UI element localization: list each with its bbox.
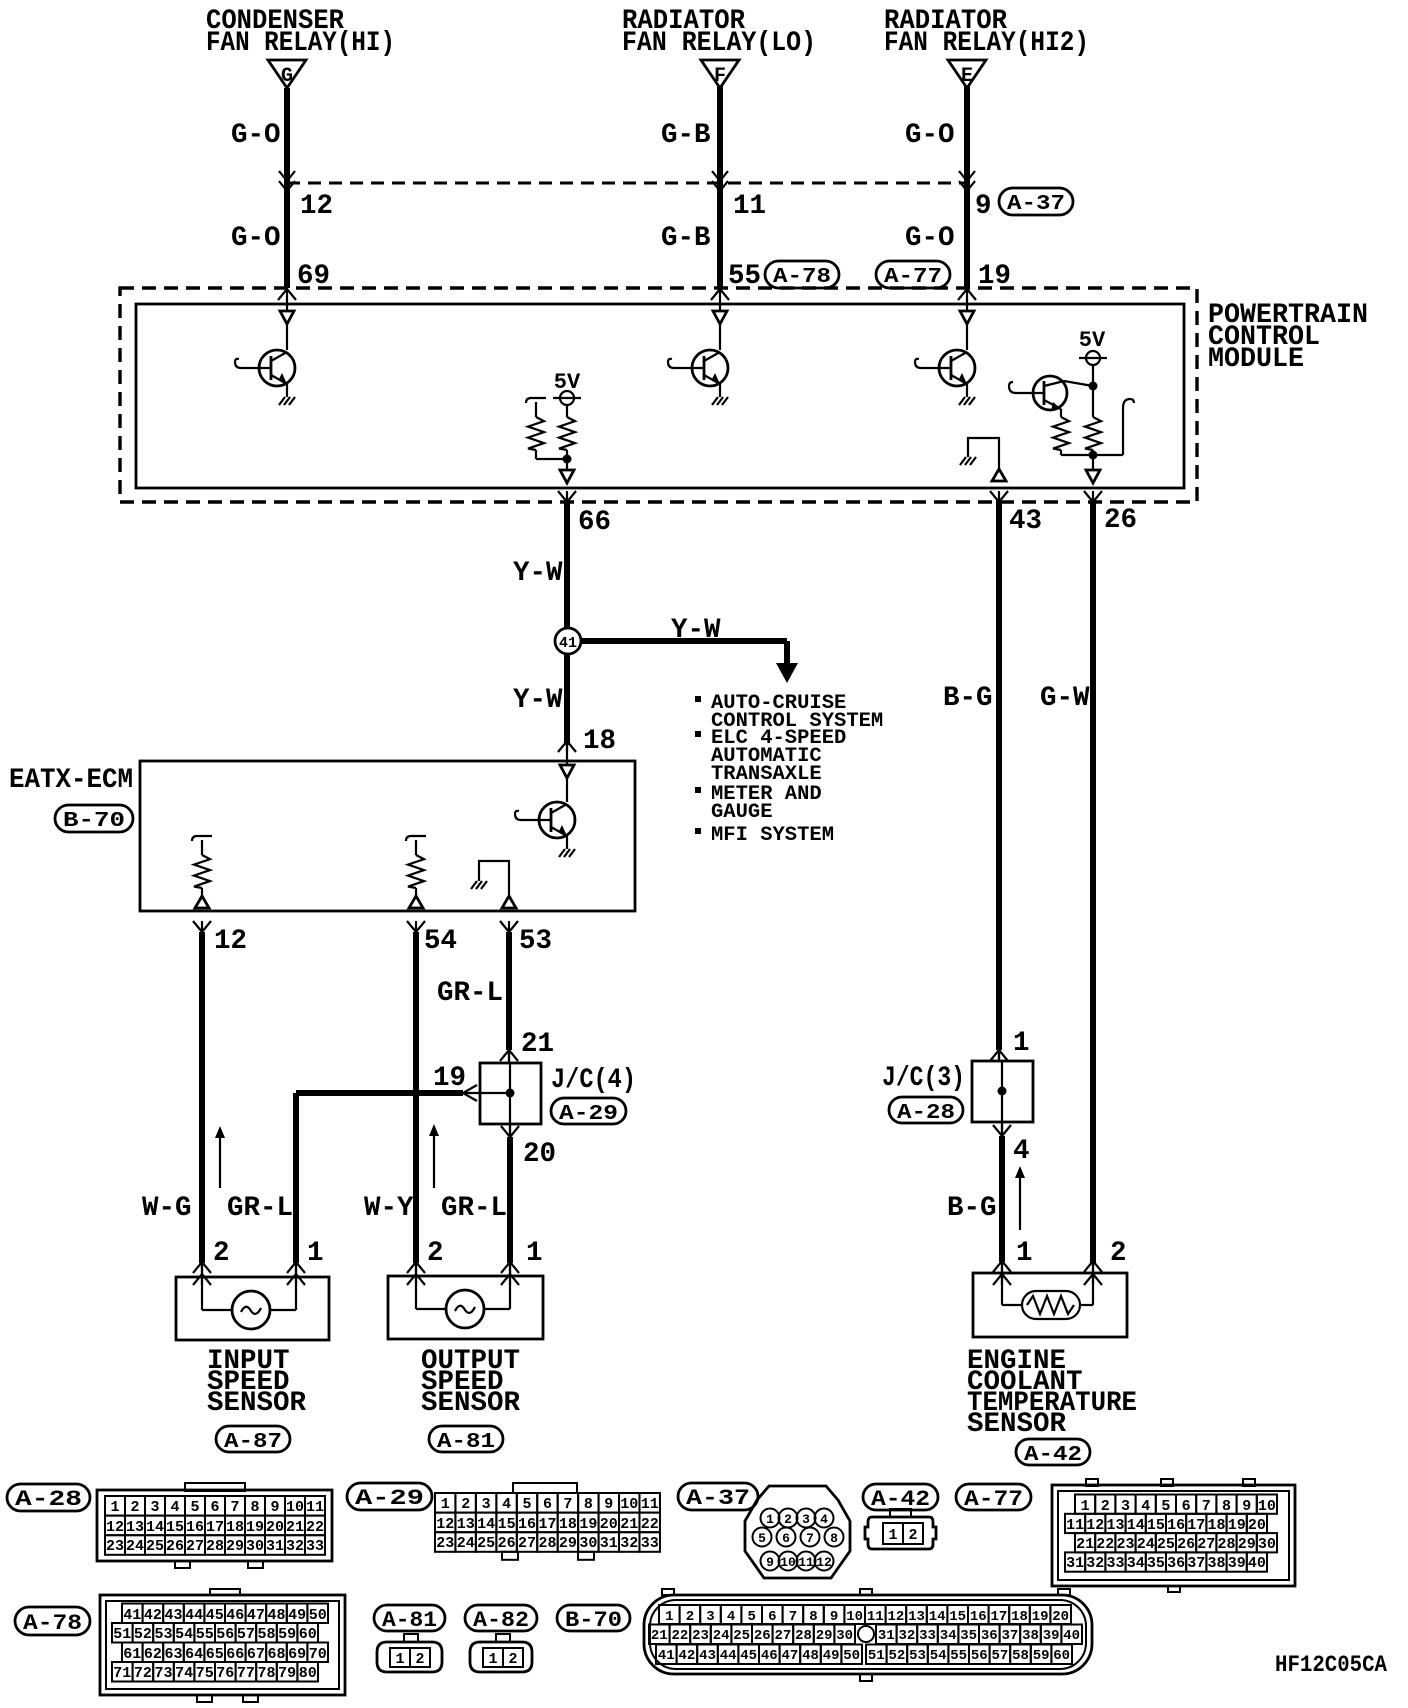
svg-text:40: 40 bbox=[1248, 1555, 1266, 1572]
svg-text:14: 14 bbox=[1127, 1517, 1145, 1534]
svg-text:12: 12 bbox=[887, 1609, 904, 1625]
svg-text:52: 52 bbox=[888, 1648, 905, 1664]
svg-text:6: 6 bbox=[782, 1531, 790, 1546]
svg-text:GR-L: GR-L bbox=[437, 978, 503, 1009]
svg-text:38: 38 bbox=[1022, 1628, 1039, 1644]
svg-text:18: 18 bbox=[559, 1516, 577, 1533]
connector label A-42 under sensor bbox=[1016, 1439, 1090, 1465]
svg-text:33: 33 bbox=[919, 1628, 936, 1644]
svg-text:25: 25 bbox=[477, 1535, 495, 1552]
svg-text:31: 31 bbox=[1066, 1555, 1084, 1572]
svg-text:9: 9 bbox=[975, 191, 992, 222]
connector label A-29 bottom bbox=[347, 1483, 432, 1510]
svg-text:13: 13 bbox=[126, 1519, 144, 1536]
svg-text:B-G: B-G bbox=[947, 1193, 997, 1224]
svg-text:3: 3 bbox=[706, 1609, 714, 1625]
wire G-O from relay G to PCM pin 69 bbox=[284, 88, 290, 288]
svg-text:11: 11 bbox=[641, 1496, 659, 1513]
svg-text:39: 39 bbox=[1043, 1628, 1060, 1644]
svg-text:8: 8 bbox=[584, 1496, 593, 1513]
INPUT SPEED SENSOR box with generator symbol bbox=[176, 1277, 329, 1340]
svg-text:23: 23 bbox=[436, 1535, 454, 1552]
svg-text:32: 32 bbox=[1086, 1555, 1104, 1572]
svg-text:G-B: G-B bbox=[661, 223, 711, 254]
svg-text:5: 5 bbox=[747, 1609, 755, 1625]
svg-text:23: 23 bbox=[1116, 1536, 1134, 1553]
svg-text:32: 32 bbox=[286, 1538, 304, 1555]
svg-text:36: 36 bbox=[981, 1628, 998, 1644]
wire GR-L jc4 pin20 to output sensor pin1 bbox=[507, 1137, 513, 1263]
svg-text:5: 5 bbox=[1161, 1498, 1170, 1515]
svg-text:43: 43 bbox=[1009, 506, 1042, 537]
svg-text:44: 44 bbox=[185, 1607, 203, 1624]
svg-text:25: 25 bbox=[1157, 1536, 1175, 1553]
svg-text:1: 1 bbox=[526, 1238, 543, 1269]
svg-text:2: 2 bbox=[213, 1238, 230, 1269]
svg-text:12: 12 bbox=[300, 191, 333, 222]
wire W-G eatx12 to input sensor pin2 bbox=[199, 932, 205, 1263]
svg-text:G-O: G-O bbox=[905, 120, 955, 151]
svg-text:51: 51 bbox=[868, 1648, 885, 1664]
ENGINE COOLANT TEMPERATURE SENSOR box with thermistor bbox=[973, 1273, 1127, 1337]
svg-text:4: 4 bbox=[727, 1609, 735, 1625]
svg-text:22: 22 bbox=[306, 1519, 324, 1536]
svg-text:21: 21 bbox=[620, 1516, 638, 1533]
svg-text:16: 16 bbox=[518, 1516, 536, 1533]
transistor Q3 radiator fan hi2 bbox=[939, 350, 975, 386]
svg-text:1: 1 bbox=[1016, 1238, 1033, 1269]
svg-text:2: 2 bbox=[415, 1651, 424, 1668]
svg-text:53: 53 bbox=[909, 1648, 926, 1664]
terminal triangle inside PCM x=967 bbox=[966, 299, 968, 311]
transistor Q2 radiator fan lo bbox=[692, 350, 728, 386]
svg-text:66: 66 bbox=[578, 507, 611, 538]
svg-text:A-42: A-42 bbox=[1024, 1444, 1082, 1467]
svg-text:EATX-ECM: EATX-ECM bbox=[9, 765, 133, 796]
wire to transistor Q5 bbox=[566, 778, 568, 802]
svg-text:20: 20 bbox=[266, 1519, 284, 1536]
wire to transistor x=967 bbox=[966, 324, 968, 350]
claw JC3 pin4 bbox=[993, 1125, 1011, 1136]
svg-text:1: 1 bbox=[1013, 1028, 1030, 1059]
svg-text:49: 49 bbox=[288, 1607, 306, 1624]
svg-text:29: 29 bbox=[1238, 1536, 1256, 1553]
svg-text:2: 2 bbox=[1110, 1238, 1127, 1269]
svg-text:15: 15 bbox=[166, 1519, 184, 1536]
svg-text:50: 50 bbox=[843, 1648, 860, 1664]
svg-text:A-29: A-29 bbox=[355, 1486, 424, 1511]
svg-text:22: 22 bbox=[641, 1516, 659, 1533]
connector label A-42 bottom bbox=[863, 1484, 938, 1510]
svg-text:13: 13 bbox=[1106, 1517, 1124, 1534]
svg-text:21: 21 bbox=[651, 1628, 668, 1644]
svg-text:22: 22 bbox=[671, 1628, 688, 1644]
svg-text:5: 5 bbox=[190, 1499, 199, 1516]
svg-text:7: 7 bbox=[1202, 1498, 1211, 1515]
arrow chevron pin 19 bbox=[463, 1085, 477, 1101]
svg-text:11: 11 bbox=[1066, 1517, 1084, 1534]
connector label A-37 bbox=[999, 188, 1073, 215]
svg-text:52: 52 bbox=[134, 1626, 152, 1643]
wire W-Y eatx54 to output sensor pin2 bbox=[413, 932, 419, 1263]
svg-text:A-87: A-87 bbox=[224, 1431, 282, 1454]
svg-text:56: 56 bbox=[971, 1648, 988, 1664]
svg-text:5V: 5V bbox=[1079, 328, 1106, 353]
svg-text:33: 33 bbox=[641, 1535, 659, 1552]
svg-text:5: 5 bbox=[522, 1496, 531, 1513]
svg-text:45: 45 bbox=[740, 1648, 757, 1664]
svg-text:20: 20 bbox=[600, 1516, 618, 1533]
svg-text:7: 7 bbox=[806, 1531, 814, 1546]
svg-text:72: 72 bbox=[134, 1665, 152, 1682]
svg-text:41: 41 bbox=[658, 1648, 675, 1664]
svg-text:2: 2 bbox=[130, 1499, 139, 1516]
dashed harness line A-37 bbox=[287, 182, 967, 185]
svg-text:6: 6 bbox=[768, 1609, 776, 1625]
svg-text:80: 80 bbox=[299, 1665, 317, 1682]
svg-text:Y-W: Y-W bbox=[513, 685, 563, 716]
claw JC3 pin1 bbox=[990, 1050, 1008, 1061]
svg-text:31: 31 bbox=[878, 1628, 895, 1644]
connector label A-28 bottom bbox=[7, 1484, 90, 1511]
svg-text:B-G: B-G bbox=[943, 683, 993, 714]
connector face A-78 bbox=[210, 1589, 240, 1595]
svg-text:38: 38 bbox=[1207, 1555, 1225, 1572]
svg-text:A-29: A-29 bbox=[559, 1103, 618, 1126]
svg-text:A-81: A-81 bbox=[437, 1431, 495, 1454]
svg-text:1: 1 bbox=[1081, 1498, 1090, 1515]
svg-text:A-78: A-78 bbox=[23, 1611, 82, 1636]
svg-text:2: 2 bbox=[908, 1527, 917, 1544]
resistor R1 bbox=[194, 855, 210, 888]
bullet list of systems fed by Y-W bbox=[695, 696, 701, 702]
svg-text:15: 15 bbox=[1147, 1517, 1165, 1534]
svg-text:13: 13 bbox=[908, 1609, 925, 1625]
svg-text:Y-W: Y-W bbox=[671, 615, 721, 646]
svg-text:15: 15 bbox=[498, 1516, 516, 1533]
wire G-O from relay E to PCM pin 19 bbox=[964, 86, 970, 288]
svg-text:27: 27 bbox=[186, 1538, 204, 1555]
svg-text:10: 10 bbox=[620, 1496, 638, 1513]
resistor R-C bbox=[1060, 409, 1062, 417]
ground below transistor x=287 bbox=[286, 384, 288, 392]
svg-text:68: 68 bbox=[267, 1646, 285, 1663]
svg-text:1: 1 bbox=[888, 1527, 897, 1544]
5V supply circle right bbox=[1086, 351, 1100, 365]
svg-text:51: 51 bbox=[113, 1626, 131, 1643]
svg-text:1: 1 bbox=[441, 1496, 450, 1513]
svg-text:SENSOR: SENSOR bbox=[207, 1388, 307, 1419]
connector label A-77 bottom bbox=[956, 1484, 1031, 1510]
connector face A-28 bbox=[97, 1490, 332, 1561]
svg-text:5: 5 bbox=[758, 1531, 766, 1546]
svg-text:79: 79 bbox=[278, 1665, 296, 1682]
entry claw pin at x=287 bbox=[278, 289, 296, 300]
svg-text:54: 54 bbox=[930, 1648, 947, 1664]
svg-text:4: 4 bbox=[1141, 1498, 1150, 1515]
svg-text:MFI SYSTEM: MFI SYSTEM bbox=[711, 824, 834, 847]
direction arrow left bbox=[219, 1136, 221, 1188]
terminal triangle pin 53 bbox=[502, 896, 516, 908]
node dot pin66 net bbox=[563, 455, 572, 464]
svg-text:70: 70 bbox=[309, 1646, 327, 1663]
connector face B-70 bbox=[662, 1589, 674, 1595]
svg-text:7: 7 bbox=[563, 1496, 572, 1513]
ground below Q5 bbox=[566, 836, 568, 844]
svg-text:74: 74 bbox=[175, 1665, 193, 1682]
svg-text:55: 55 bbox=[196, 1626, 214, 1643]
resistor R-D bbox=[1085, 417, 1101, 450]
connector label A-77 bbox=[876, 261, 950, 288]
terminal triangle pin 66 bbox=[560, 470, 574, 483]
svg-text:30: 30 bbox=[836, 1628, 853, 1644]
svg-text:3: 3 bbox=[802, 1512, 810, 1527]
svg-text:10: 10 bbox=[846, 1609, 863, 1625]
wire G-W from PCM pin 26 to coolant sensor pin2 bbox=[1090, 500, 1096, 1263]
svg-text:54: 54 bbox=[175, 1626, 193, 1643]
svg-text:12: 12 bbox=[214, 926, 247, 957]
svg-text:14: 14 bbox=[477, 1516, 495, 1533]
internal ground for pin 53 bbox=[479, 861, 509, 896]
svg-text:A-77: A-77 bbox=[884, 266, 942, 289]
connector label A-81 bottom bbox=[374, 1605, 445, 1631]
terminal triangle pin 43 bbox=[992, 469, 1006, 481]
svg-text:34: 34 bbox=[940, 1628, 957, 1644]
resistor R-A bbox=[528, 417, 544, 450]
svg-text:69: 69 bbox=[288, 1646, 306, 1663]
entry claw pin at x=720 bbox=[711, 289, 729, 300]
JC4 internal line to pin 19 bbox=[465, 1092, 510, 1094]
entry claw pin at x=967 bbox=[958, 289, 976, 300]
svg-text:78: 78 bbox=[257, 1665, 275, 1682]
svg-text:4: 4 bbox=[1013, 1136, 1030, 1167]
svg-text:14: 14 bbox=[929, 1609, 946, 1625]
crossing chevrons wire F bbox=[712, 171, 728, 181]
svg-text:21: 21 bbox=[286, 1519, 304, 1536]
svg-text:Y-W: Y-W bbox=[513, 558, 563, 589]
svg-text:8: 8 bbox=[250, 1499, 259, 1516]
svg-text:3: 3 bbox=[482, 1496, 491, 1513]
svg-text:2: 2 bbox=[427, 1238, 444, 1269]
svg-text:8: 8 bbox=[830, 1531, 838, 1546]
svg-text:G-B: G-B bbox=[661, 120, 711, 151]
svg-text:3: 3 bbox=[150, 1499, 159, 1516]
svg-text:2: 2 bbox=[784, 1512, 792, 1527]
svg-text:25: 25 bbox=[146, 1538, 164, 1555]
svg-text:49: 49 bbox=[823, 1648, 840, 1664]
svg-text:76: 76 bbox=[216, 1665, 234, 1682]
svg-text:A-28: A-28 bbox=[897, 1102, 955, 1125]
svg-text:G-O: G-O bbox=[231, 223, 281, 254]
JC4 node dot bbox=[506, 1089, 515, 1098]
svg-text:G-W: G-W bbox=[1040, 683, 1090, 714]
connector face A-29 bbox=[513, 1483, 577, 1493]
connector triangle G bbox=[268, 60, 306, 88]
ground below transistor x=720 bbox=[719, 384, 721, 392]
svg-text:64: 64 bbox=[185, 1646, 203, 1663]
svg-text:40: 40 bbox=[1063, 1628, 1080, 1644]
svg-text:25: 25 bbox=[733, 1628, 750, 1644]
OUTPUT SPEED SENSOR box with generator symbol bbox=[388, 1276, 543, 1339]
svg-text:20: 20 bbox=[1052, 1609, 1069, 1625]
svg-text:66: 66 bbox=[226, 1646, 244, 1663]
svg-text:56: 56 bbox=[216, 1626, 234, 1643]
svg-text:42: 42 bbox=[144, 1607, 162, 1624]
svg-text:20: 20 bbox=[1248, 1517, 1266, 1534]
svg-text:E: E bbox=[961, 65, 973, 88]
svg-text:4: 4 bbox=[170, 1499, 179, 1516]
svg-text:11: 11 bbox=[306, 1499, 324, 1516]
svg-text:F: F bbox=[714, 65, 726, 88]
exit claw pin 12 bbox=[193, 921, 211, 932]
svg-text:18: 18 bbox=[583, 726, 616, 757]
resistor R1 internal hook bbox=[192, 836, 212, 855]
svg-text:67: 67 bbox=[247, 1646, 265, 1663]
svg-text:27: 27 bbox=[774, 1628, 791, 1644]
svg-text:32: 32 bbox=[620, 1535, 638, 1552]
svg-text:26: 26 bbox=[498, 1535, 516, 1552]
direction arrow middle bbox=[433, 1134, 435, 1188]
svg-text:17: 17 bbox=[206, 1519, 224, 1536]
svg-text:19: 19 bbox=[433, 1063, 466, 1094]
wire B-G from PCM pin 43 to JC3 bbox=[996, 500, 1002, 1050]
svg-text:11: 11 bbox=[867, 1609, 884, 1625]
node dot 5V right bbox=[1089, 382, 1098, 391]
wire to transistor x=720 bbox=[719, 324, 721, 350]
wire Y-W from PCM pin 66 bbox=[564, 500, 570, 629]
svg-text:1: 1 bbox=[665, 1609, 673, 1625]
connector label A-29 bbox=[551, 1098, 626, 1124]
wire GR-L jc4 pin19 to input sensor pin1 bbox=[296, 1090, 463, 1096]
svg-text:31: 31 bbox=[266, 1538, 284, 1555]
exit claw pin 43 bbox=[990, 491, 1008, 502]
svg-text:57: 57 bbox=[991, 1648, 1008, 1664]
POWERTRAIN CONTROL MODULE dashed box bbox=[120, 288, 1197, 502]
svg-text:26: 26 bbox=[1177, 1536, 1195, 1553]
svg-text:22: 22 bbox=[1096, 1536, 1114, 1553]
svg-text:GAUGE: GAUGE bbox=[711, 801, 773, 824]
svg-text:12: 12 bbox=[1086, 1517, 1104, 1534]
svg-text:53: 53 bbox=[519, 926, 552, 957]
svg-text:60: 60 bbox=[299, 1626, 317, 1643]
svg-text:24: 24 bbox=[457, 1535, 475, 1552]
svg-text:G-O: G-O bbox=[231, 120, 281, 151]
JC4 internal vertical line bbox=[509, 1063, 511, 1124]
connector label B-70 bottom bbox=[557, 1605, 630, 1631]
svg-text:9: 9 bbox=[830, 1609, 838, 1625]
svg-text:HF12C05CA: HF12C05CA bbox=[1275, 1652, 1387, 1678]
svg-text:10: 10 bbox=[1258, 1498, 1276, 1515]
terminal triangle inside PCM x=720 bbox=[719, 299, 721, 311]
svg-text:16: 16 bbox=[186, 1519, 204, 1536]
svg-text:16: 16 bbox=[970, 1609, 987, 1625]
wires resistors to node dot bbox=[1060, 450, 1062, 455]
svg-text:62: 62 bbox=[144, 1646, 162, 1663]
svg-text:59: 59 bbox=[278, 1626, 296, 1643]
svg-text:4: 4 bbox=[502, 1496, 511, 1513]
svg-text:1: 1 bbox=[766, 1512, 774, 1527]
svg-text:17: 17 bbox=[1187, 1517, 1205, 1534]
svg-text:13: 13 bbox=[457, 1516, 475, 1533]
svg-text:B-70: B-70 bbox=[565, 1608, 622, 1633]
svg-text:28: 28 bbox=[1217, 1536, 1235, 1553]
terminal triangle pin 18 inside EATX bbox=[560, 765, 574, 778]
svg-text:29: 29 bbox=[226, 1538, 244, 1555]
svg-text:9: 9 bbox=[604, 1496, 613, 1513]
svg-text:2: 2 bbox=[1101, 1498, 1110, 1515]
svg-text:37: 37 bbox=[1001, 1628, 1018, 1644]
svg-text:SENSOR: SENSOR bbox=[967, 1409, 1067, 1440]
svg-text:11: 11 bbox=[733, 191, 766, 222]
svg-text:6: 6 bbox=[543, 1496, 552, 1513]
svg-text:SENSOR: SENSOR bbox=[421, 1388, 521, 1419]
svg-text:23: 23 bbox=[692, 1628, 709, 1644]
svg-text:10: 10 bbox=[780, 1555, 796, 1570]
terminal triangle pin 26 bbox=[1086, 470, 1100, 483]
svg-text:35: 35 bbox=[1147, 1555, 1165, 1572]
svg-text:75: 75 bbox=[196, 1665, 214, 1682]
wire Y-W from junction to EATX pin 18 bbox=[564, 654, 570, 745]
svg-text:A-28: A-28 bbox=[15, 1487, 82, 1512]
svg-text:A-37: A-37 bbox=[1007, 193, 1065, 216]
connector face A-77 bbox=[1086, 1479, 1098, 1486]
svg-text:31: 31 bbox=[600, 1535, 618, 1552]
resistor R-B bbox=[566, 405, 568, 417]
junction circle 41 bbox=[555, 628, 581, 654]
svg-text:9: 9 bbox=[1242, 1498, 1251, 1515]
svg-text:B-70: B-70 bbox=[63, 810, 125, 833]
wire GR-L eatx53 to JC4 pin21 bbox=[506, 932, 512, 1050]
svg-text:G-O: G-O bbox=[905, 223, 955, 254]
wire to transistor x=287 bbox=[286, 324, 288, 350]
svg-text:15: 15 bbox=[949, 1609, 966, 1625]
svg-text:7: 7 bbox=[230, 1499, 239, 1516]
svg-text:19: 19 bbox=[579, 1516, 597, 1533]
svg-text:W-G: W-G bbox=[142, 1193, 192, 1224]
svg-text:1: 1 bbox=[395, 1651, 404, 1668]
svg-text:18: 18 bbox=[1207, 1517, 1225, 1534]
svg-text:54: 54 bbox=[424, 926, 457, 957]
svg-text:65: 65 bbox=[206, 1646, 224, 1663]
svg-text:23: 23 bbox=[106, 1538, 124, 1555]
svg-text:2: 2 bbox=[461, 1496, 470, 1513]
svg-text:9: 9 bbox=[766, 1555, 774, 1570]
resistor R2 internal hook bbox=[406, 836, 426, 855]
resistor R2 bbox=[408, 855, 424, 888]
ground below transistor x=967 bbox=[966, 384, 968, 392]
svg-text:W-Y: W-Y bbox=[364, 1193, 414, 1224]
svg-text:9: 9 bbox=[270, 1499, 279, 1516]
svg-text:26: 26 bbox=[1104, 505, 1137, 536]
transistor Q5 bbox=[539, 802, 575, 838]
transistor Q1 condenser fan hi bbox=[259, 350, 295, 386]
svg-text:12: 12 bbox=[436, 1516, 454, 1533]
svg-text:77: 77 bbox=[237, 1665, 255, 1682]
svg-text:63: 63 bbox=[164, 1646, 182, 1663]
connector label A-37 bottom bbox=[678, 1483, 758, 1510]
svg-text:55: 55 bbox=[950, 1648, 967, 1664]
svg-text:53: 53 bbox=[154, 1626, 172, 1643]
svg-text:28: 28 bbox=[206, 1538, 224, 1555]
svg-text:MODULE: MODULE bbox=[1208, 344, 1304, 375]
svg-text:J/C(3): J/C(3) bbox=[882, 1063, 965, 1094]
svg-text:73: 73 bbox=[154, 1665, 172, 1682]
svg-text:12: 12 bbox=[106, 1519, 124, 1536]
claw JC4 pin20 bbox=[501, 1126, 519, 1137]
svg-text:32: 32 bbox=[898, 1628, 915, 1644]
svg-text:30: 30 bbox=[246, 1538, 264, 1555]
svg-text:6: 6 bbox=[1182, 1498, 1191, 1515]
